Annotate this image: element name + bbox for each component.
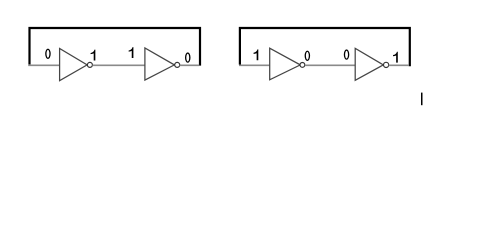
inversion bubble U4: [384, 62, 389, 67]
label 1 at U1 output: [91, 50, 96, 61]
inversion bubble U3: [300, 63, 305, 68]
inverter U2: [145, 48, 175, 80]
inverter U4: [355, 48, 383, 80]
wire: U4 output to loop: [389, 64, 409, 66]
label 1 at U3 input: [254, 49, 259, 60]
wire: U2 output to loop: [180, 64, 200, 66]
label 0 at U3 output: [305, 51, 311, 61]
label 1 at U2 input: [129, 47, 134, 58]
inverter U3: [270, 48, 301, 80]
left latch feedback loop wire: [30, 28, 201, 66]
label 0 at U1 input: [45, 49, 51, 59]
inversion bubble U2: [175, 62, 180, 67]
label 0 at U4 input: [344, 49, 350, 59]
text cursor: [421, 93, 423, 106]
wire: right latch input segment: [239, 64, 270, 66]
label 1 at U4 output: [393, 52, 398, 63]
wire: left latch input segment: [28, 64, 60, 66]
inverter U1: [60, 49, 88, 81]
wire: U3 output to U4 input: [305, 64, 356, 66]
inversion bubble U1: [87, 62, 92, 67]
label 0 at U2 output: [185, 52, 191, 62]
right latch feedback loop wire: [240, 28, 410, 66]
wire: U1 output to U2 input: [92, 64, 145, 66]
